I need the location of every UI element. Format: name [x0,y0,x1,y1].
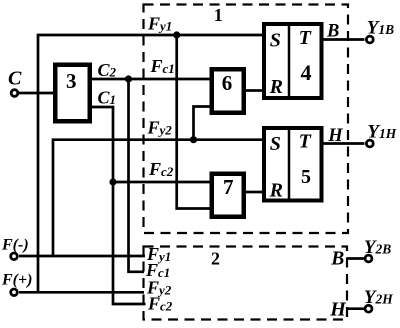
svg-text:3: 3 [66,69,77,93]
svg-text:4: 4 [301,60,312,85]
svg-text:F(+): F(+) [1,272,32,289]
svg-text:2: 2 [211,249,220,269]
svg-text:B: B [330,249,344,270]
svg-text:5: 5 [301,166,311,188]
svg-text:R: R [269,76,283,98]
svg-text:6: 6 [222,71,233,95]
svg-text:H: H [327,126,343,146]
svg-text:H: H [329,299,347,321]
svg-text:S: S [270,133,281,155]
svg-text:1: 1 [214,5,223,25]
svg-text:F(-): F(-) [1,237,29,254]
svg-text:S: S [270,30,281,52]
svg-text:7: 7 [223,175,234,199]
svg-text:B: B [326,22,339,42]
svg-text:T: T [299,131,312,153]
svg-text:R: R [269,180,283,202]
svg-text:T: T [299,27,312,49]
svg-text:C: C [8,68,22,90]
